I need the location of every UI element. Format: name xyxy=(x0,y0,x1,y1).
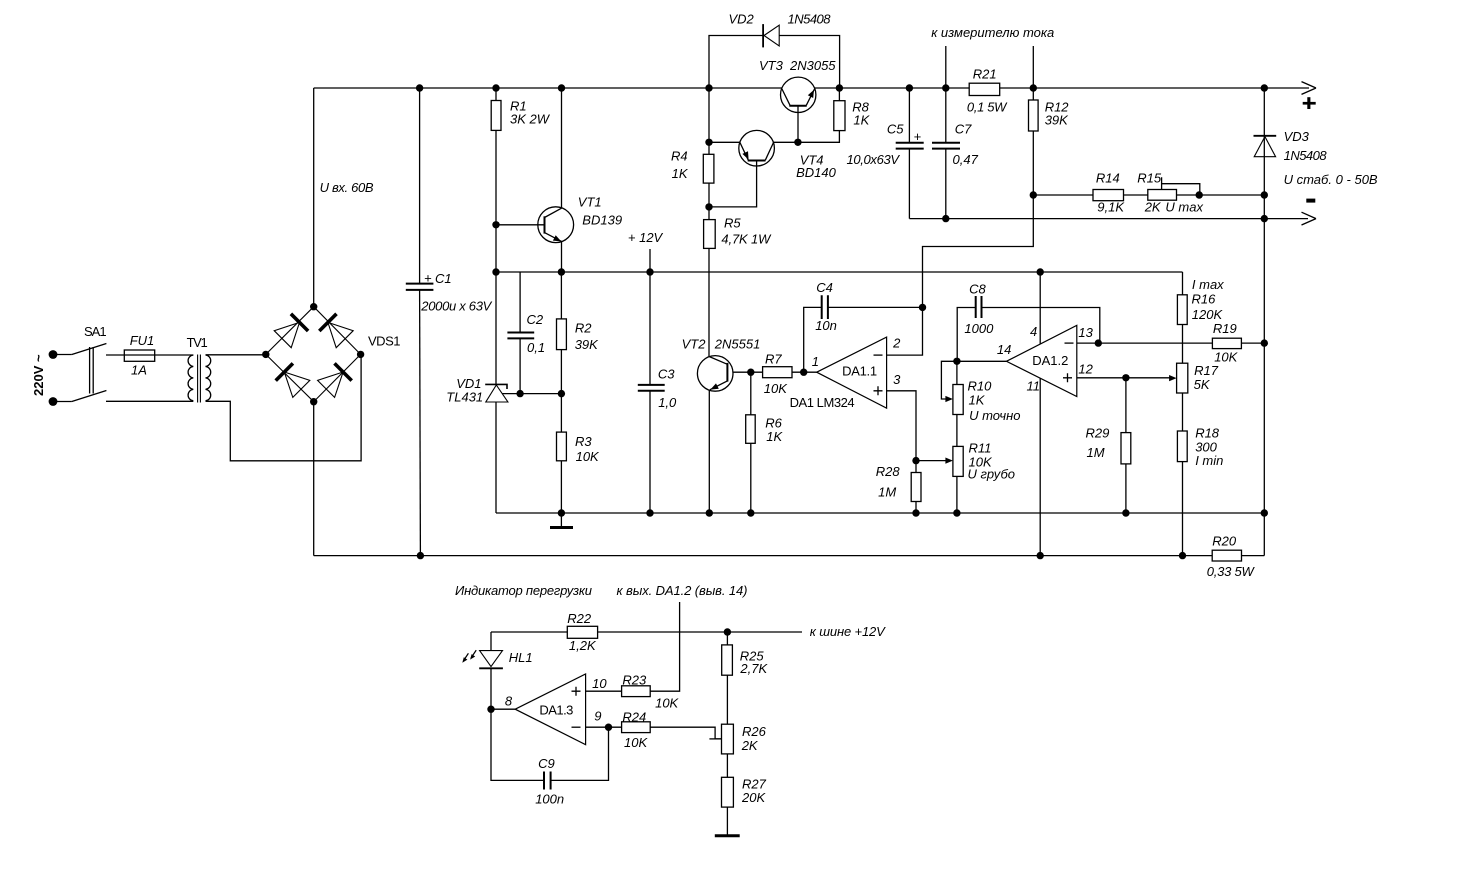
resistor R19 10K xyxy=(1212,338,1241,348)
resistor R5 4,7K 1W xyxy=(704,220,716,249)
svg-text:100n: 100n xyxy=(535,792,564,807)
junction: DA1.2 pin11 on bottom rail xyxy=(1037,552,1044,559)
junction: VT2 base / R7 / R6 xyxy=(747,369,754,376)
junction: VT1 collector on positive rail xyxy=(558,84,565,91)
wire: bottom negative rail xyxy=(314,555,1265,557)
capacitor C7 0,47 xyxy=(932,143,960,149)
svg-text:R11: R11 xyxy=(969,441,992,456)
resistor R1 3K 2W xyxy=(491,101,501,131)
svg-text:9,1K: 9,1K xyxy=(1097,200,1125,215)
svg-text:VD3: VD3 xyxy=(1284,129,1310,144)
resistor R22 1,2K xyxy=(567,626,597,638)
transistor VT1 BD139 xyxy=(538,207,574,243)
svg-text:220V ~: 220V ~ xyxy=(31,354,46,396)
wire: C8 right leg to pin13 node xyxy=(981,308,1099,344)
wire: R7 leads xyxy=(751,371,817,373)
DA1.1 plus input symbol xyxy=(874,386,883,395)
junction: C7 bottom on minus rail xyxy=(942,215,949,222)
junction: R18 bottom on bottom rail xyxy=(1179,552,1186,559)
svg-text:1N5408: 1N5408 xyxy=(788,12,832,27)
svg-text:DA1 LM324: DA1 LM324 xyxy=(790,395,855,410)
svg-text:I min: I min xyxy=(1195,453,1223,468)
wire: R2 R3 divider line xyxy=(560,272,562,513)
svg-text:0,33 5W: 0,33 5W xyxy=(1207,564,1256,579)
wire: R26 wiper tick xyxy=(709,738,721,740)
wire: DA1.2 pin4 supply line xyxy=(1039,272,1041,344)
junction: ground rail / output vertical xyxy=(1261,509,1268,516)
DA1.1 minus input symbol xyxy=(874,354,883,356)
wire: R10 R11 chain xyxy=(956,361,958,513)
svg-text:C7: C7 xyxy=(955,122,972,137)
wire: VT1 emitter to +12V rail xyxy=(561,241,563,272)
transformer TV1 xyxy=(188,355,211,403)
svg-text:к измерителю тока: к измерителю тока xyxy=(931,25,1054,40)
svg-text:1N5408: 1N5408 xyxy=(1284,148,1328,163)
wire: +12V label stub xyxy=(649,249,651,272)
node: bridge top xyxy=(310,303,317,310)
junction: VD3 top on positive rail xyxy=(1261,84,1268,91)
resistor R4 1K xyxy=(703,154,714,183)
wire: VT1 collector to top rail xyxy=(561,88,563,208)
svg-text:R4: R4 xyxy=(671,148,688,163)
svg-text:I max: I max xyxy=(1192,277,1224,292)
resistor R25 2,7K xyxy=(722,645,733,675)
wire: +12V rail xyxy=(496,271,1183,273)
svg-text:BD139: BD139 xyxy=(582,213,622,228)
junction: C5 top on positive rail xyxy=(906,84,913,91)
svg-text:BD140: BD140 xyxy=(796,165,837,180)
output arrow plus xyxy=(1302,82,1317,95)
svg-text:1K: 1K xyxy=(672,166,689,181)
junction: R2 / R3 divider xyxy=(558,390,565,397)
svg-text:R10: R10 xyxy=(968,379,993,394)
svg-text:1A: 1A xyxy=(131,363,147,378)
diode VD3 1N5408 xyxy=(1254,136,1277,157)
svg-text:1: 1 xyxy=(812,354,819,369)
wire: R29 branch xyxy=(1125,378,1127,513)
svg-text:2N3055: 2N3055 xyxy=(789,58,836,73)
junction: C7 top / ammeter stub xyxy=(942,84,949,91)
svg-text:FU1: FU1 xyxy=(130,333,155,348)
svg-text:VT2: VT2 xyxy=(682,337,707,352)
resistor R14 9,1K xyxy=(1093,190,1124,201)
junction: R3 bottom / ground stub xyxy=(558,509,565,516)
resistor R21 0,1 5W xyxy=(969,83,1000,95)
svg-text:DA1.2: DA1.2 xyxy=(1032,353,1068,368)
R11 wiper arrowhead xyxy=(945,458,953,464)
wire: SA1 to TV1 primary bottom xyxy=(106,400,193,402)
VDS1 diode D4 (bottom node to right node) xyxy=(318,363,352,397)
svg-text:C2: C2 xyxy=(527,312,544,327)
svg-text:U точно: U точно xyxy=(969,408,1020,423)
wire: VT4 collector row to R8 bottom xyxy=(774,131,840,143)
junction: R25 top / +12V bus wire xyxy=(724,628,731,635)
junction: DA1.2 pin12 / R29 xyxy=(1122,374,1129,381)
wire: ammeter stub left xyxy=(945,46,947,88)
svg-text:1,2K: 1,2K xyxy=(569,638,597,653)
transistor VT4 BD140 xyxy=(739,130,775,166)
potentiometer R15 2K U max xyxy=(1148,190,1177,201)
resistor R28 1M xyxy=(911,473,921,502)
svg-text:1M: 1M xyxy=(878,485,896,500)
svg-text:+: + xyxy=(424,271,432,286)
svg-text:R28: R28 xyxy=(876,464,901,479)
wire: VD2 loop xyxy=(709,36,840,89)
diode VD2 1N5408 xyxy=(763,24,779,47)
DA1.2 minus input symbol xyxy=(1065,342,1074,344)
svg-text:0,1: 0,1 xyxy=(527,340,545,355)
svg-text:10K: 10K xyxy=(624,735,648,750)
svg-text:10: 10 xyxy=(592,676,607,691)
node: bridge bottom xyxy=(310,398,317,405)
resistor R6 1K xyxy=(746,415,756,444)
svg-text:10n: 10n xyxy=(815,318,837,333)
wire: DA1.2 pin13 row through R19 xyxy=(1077,342,1265,344)
wire: VT2 base to R7 node xyxy=(727,371,750,373)
VDS1 diode D1 (left node to top node) xyxy=(274,314,308,348)
svg-text:DA1.3: DA1.3 xyxy=(539,703,573,718)
junction: C1 top on positive rail xyxy=(416,84,423,91)
wire: VT4 emitter wire xyxy=(709,141,740,143)
svg-text:1K: 1K xyxy=(853,113,870,128)
svg-text:U стаб. 0 - 50В: U стаб. 0 - 50В xyxy=(1284,172,1378,187)
wire: 220V top terminal lead xyxy=(53,354,72,356)
svg-text:11: 11 xyxy=(1027,379,1041,394)
svg-text:R19: R19 xyxy=(1213,321,1237,336)
resistor R27 20K xyxy=(722,777,734,807)
wire: R15 wiper to right end xyxy=(1162,177,1200,195)
svg-text:R14: R14 xyxy=(1096,171,1120,186)
junction: C2 bottom / VD1 ref xyxy=(516,390,523,397)
svg-text:2K: 2K xyxy=(741,738,759,753)
wire: ground symbol stub under R3 xyxy=(560,513,562,527)
svg-text:R21: R21 xyxy=(973,67,997,82)
capacitor C8 1000 xyxy=(976,296,982,318)
svg-text:1000: 1000 xyxy=(964,321,994,336)
wire: VT2 emitter to ground rail xyxy=(708,390,710,513)
resistor R2 39K xyxy=(557,319,567,350)
capacitor C1 2000u x 63V xyxy=(406,284,434,290)
wire: HL1 R22 top wire xyxy=(491,631,802,633)
VDS1 diode D3 (bottom node to left node) xyxy=(276,363,310,397)
junction: C8 right / DA1.2 pin13 xyxy=(1095,339,1102,346)
DA1.3 plus input symbol xyxy=(572,687,581,696)
svg-text:2000u x 63V: 2000u x 63V xyxy=(420,299,492,314)
potentiometer R17 5K xyxy=(1177,363,1188,393)
DA1.2 plus input symbol xyxy=(1063,373,1072,382)
junction: VT1 base / R1 xyxy=(492,221,499,228)
svg-text:3K 2W: 3K 2W xyxy=(510,112,551,127)
wire: DA1.2 pin14 wire xyxy=(957,360,1007,362)
junction: C3 bottom on ground rail xyxy=(646,509,653,516)
junction: R29 bottom on ground rail xyxy=(1122,509,1129,516)
wire: R6 branch xyxy=(750,372,752,513)
ground symbol (indicator divider) xyxy=(715,834,740,837)
wire: C3 branch xyxy=(649,272,651,513)
wire: R11 wiper arrow line xyxy=(916,460,947,462)
junction: DA1.3 pin9 / R24 / C9 xyxy=(605,724,612,731)
op-amp DA1.1 (DA1 LM324) xyxy=(817,337,887,408)
svg-text:1M: 1M xyxy=(1087,445,1105,460)
svg-text:2N5551: 2N5551 xyxy=(714,337,761,352)
node: bridge right xyxy=(357,351,364,358)
VDS1 diode D2 (right node to top node) xyxy=(319,314,353,348)
svg-text:1K: 1K xyxy=(766,429,783,444)
resistor R23 10K xyxy=(622,686,651,697)
svg-text:U грубо: U грубо xyxy=(968,467,1016,482)
wire: VD1 reference to divider junction xyxy=(502,393,561,395)
svg-text:DA1.1: DA1.1 xyxy=(842,364,877,379)
resistor R20 0,33 5W xyxy=(1212,550,1241,561)
svg-text:10K: 10K xyxy=(764,381,788,396)
wire: right output vertical (VD3 / R19 / R20 net) xyxy=(1263,88,1265,556)
wire: R25 R26 R27 chain xyxy=(726,632,728,836)
svg-text:14: 14 xyxy=(997,342,1011,357)
resistor R29 1M xyxy=(1121,433,1131,464)
resistor R24 10K xyxy=(622,722,651,733)
wire: R10 wiper loop xyxy=(941,361,957,399)
junction: R15 wiper xyxy=(1196,191,1203,198)
wire: C9 loop xyxy=(491,709,609,780)
wire: ammeter stub right xyxy=(1032,46,1034,88)
wire: VT1 base wire xyxy=(496,224,545,226)
wire: VT4 base to R4/R5 junction xyxy=(709,166,757,207)
junction: VT3 base / VT4 collector xyxy=(794,139,801,146)
wire: top positive rail from bridge to output xyxy=(314,87,1309,89)
svg-text:39K: 39K xyxy=(1045,113,1069,128)
capacitor C4 10n xyxy=(822,295,828,319)
junction: VD2 left leg on positive rail xyxy=(705,84,712,91)
junction: DA1.1 pin3 / R28 / R11 wiper xyxy=(912,457,919,464)
svg-text:5K: 5K xyxy=(1194,377,1211,392)
junction: +12V stub / C3 on +12V rail xyxy=(646,268,653,275)
resistor R8 1K xyxy=(834,101,845,131)
svg-text:R3: R3 xyxy=(575,434,592,449)
svg-text:4: 4 xyxy=(1030,324,1037,339)
wire: TV1 secondary top to bridge left node xyxy=(206,354,266,356)
node: bridge left xyxy=(262,351,269,358)
wire: DA1.3 pin10 row xyxy=(586,690,622,692)
svg-text:20K: 20K xyxy=(741,790,766,805)
ground symbol (control common) xyxy=(550,526,573,529)
junction: R28 bottom on ground rail xyxy=(912,509,919,516)
transistor VT3 2N3055 xyxy=(781,77,816,112)
svg-text:1,0: 1,0 xyxy=(658,395,677,410)
svg-text:R2: R2 xyxy=(575,321,592,336)
wire: output minus rail xyxy=(909,218,1308,220)
junction: DA1.2 pin14 / R10 / C8 xyxy=(953,358,960,365)
svg-text:2,7K: 2,7K xyxy=(739,661,768,676)
wire: C8 left leg xyxy=(957,308,975,362)
svg-text:R15: R15 xyxy=(1137,171,1162,186)
svg-text:VD2: VD2 xyxy=(729,12,755,27)
svg-text:C5: C5 xyxy=(887,122,904,137)
junction: DA1.1 pin1 / R7 / C4 xyxy=(800,369,807,376)
svg-text:10,0x63V: 10,0x63V xyxy=(847,152,901,167)
junction: VT2 emitter on ground rail xyxy=(706,509,713,516)
wire: R4 R5 line VD2-left to VT2 collector xyxy=(708,88,710,357)
wire: R14 R15 feedback row xyxy=(1033,194,1264,196)
wire: C2 branch xyxy=(519,272,521,394)
switch SA1 xyxy=(72,344,107,402)
wire: TV1 secondary bottom to bridge right node xyxy=(206,354,362,460)
svg-text:0,1 5W: 0,1 5W xyxy=(967,100,1008,115)
R17 wiper arrowhead xyxy=(1169,375,1177,381)
wire: R23 to DA1.2 output stub xyxy=(650,602,679,691)
svg-text:C9: C9 xyxy=(538,756,555,771)
resistor R7 10K xyxy=(763,367,792,378)
junction: R4 top / VT4 emitter xyxy=(705,139,712,146)
wire: DA1.2 pin12 row xyxy=(1077,377,1171,379)
node: 220V input terminals xyxy=(49,350,58,359)
potentiometer R11 10K U грубо xyxy=(953,446,963,476)
junction: R1 line on +12V rail xyxy=(492,268,499,275)
svg-text:C4: C4 xyxy=(816,280,833,295)
svg-text:13: 13 xyxy=(1078,325,1093,340)
svg-text:R5: R5 xyxy=(724,216,741,231)
svg-text:TV1: TV1 xyxy=(187,335,208,350)
svg-text:3: 3 xyxy=(893,372,901,387)
svg-text:R22: R22 xyxy=(567,611,592,626)
svg-text:39K: 39K xyxy=(575,337,599,352)
wire: bridge bottom node to bottom rail xyxy=(313,402,315,556)
svg-text:VDS1: VDS1 xyxy=(368,334,401,349)
junction: R6 bottom on ground rail xyxy=(747,509,754,516)
fuse FU1 1A xyxy=(124,350,154,361)
wire: feedback Z to DA1.1 pin2 xyxy=(887,195,1034,355)
wire: DA1.1 pin3 to R28 xyxy=(887,391,916,513)
wire: common ground rail xyxy=(496,512,1264,514)
capacitor C2 0,1 xyxy=(507,333,534,339)
svg-text:9: 9 xyxy=(594,709,601,724)
wire: C1 branch bottom xyxy=(419,290,422,556)
junction: VD2 right leg / R8 / VT3 emitter xyxy=(836,84,843,91)
svg-text:12: 12 xyxy=(1078,362,1093,377)
junction: minus rail on output vertical xyxy=(1261,215,1268,222)
output minus symbol xyxy=(1306,199,1315,203)
svg-text:C1: C1 xyxy=(435,271,452,286)
svg-text:Индикатор перегрузки: Индикатор перегрузки xyxy=(455,583,592,598)
wire: R16 R17 R18 chain xyxy=(1182,272,1184,556)
svg-text:10K: 10K xyxy=(576,449,600,464)
svg-text:TL431: TL431 xyxy=(446,389,483,404)
svg-text:к вых. DA1.2 (выв. 14): к вых. DA1.2 (выв. 14) xyxy=(617,583,748,598)
svg-text:1K: 1K xyxy=(969,393,986,408)
diode bridge VDS1 xyxy=(266,307,361,402)
junction: R14 row on output vertical xyxy=(1261,191,1268,198)
svg-text:R16: R16 xyxy=(1192,292,1217,307)
op-amp DA1.2 xyxy=(1006,325,1076,396)
DA1.3 minus input symbol xyxy=(572,726,581,728)
wire: DA1.3 pin8 wire xyxy=(491,708,515,710)
svg-text:HL1: HL1 xyxy=(509,650,533,665)
svg-text:R18: R18 xyxy=(1195,426,1220,441)
junction: DA1.2 pin4 line on +12V rail xyxy=(1037,268,1044,275)
output plus symbol xyxy=(1303,97,1316,109)
svg-text:R24: R24 xyxy=(622,710,646,725)
capacitor C3 1,0 xyxy=(638,385,665,391)
output arrow minus xyxy=(1302,212,1317,225)
potentiometer R26 2K xyxy=(722,724,734,754)
wire: bridge top node to rail xyxy=(313,88,315,307)
wire: C1 branch top xyxy=(419,88,421,284)
svg-text:8: 8 xyxy=(505,694,513,709)
wire: DA1.3 pin9 row through R24 xyxy=(586,727,722,739)
resistor R12 39K xyxy=(1029,100,1039,131)
svg-text:2K: 2K xyxy=(1144,200,1162,215)
wire: VT3 base down to VT4 collector row xyxy=(797,113,799,143)
wire: R1 / VD1 vertical line xyxy=(495,88,497,513)
zener VD1 TL431 xyxy=(485,384,508,402)
svg-text:C8: C8 xyxy=(969,282,986,297)
svg-text:10K: 10K xyxy=(655,696,679,711)
transistor VT2 2N5551 xyxy=(697,356,733,392)
resistor R16 120K xyxy=(1177,295,1187,325)
junction: C4 right / feedback line xyxy=(919,304,926,311)
svg-text:R29: R29 xyxy=(1086,426,1110,441)
wire: 220V bottom terminal lead xyxy=(53,401,72,403)
op-amp DA1.3 xyxy=(515,674,585,745)
svg-text:к шине +12V: к шине +12V xyxy=(810,624,886,639)
svg-text:+ 12V: + 12V xyxy=(628,230,664,245)
svg-text:0,47: 0,47 xyxy=(953,152,979,167)
wire: SA1 to FU1 to TV1 primary top xyxy=(106,354,193,356)
wire: C5 branch xyxy=(908,88,910,219)
svg-text:120K: 120K xyxy=(1192,307,1224,322)
junction: R11 bottom on ground rail xyxy=(953,509,960,516)
svg-text:2: 2 xyxy=(892,336,901,351)
svg-text:VT3: VT3 xyxy=(759,58,784,73)
resistor R18 300 I min xyxy=(1177,431,1187,462)
junction: C1 bottom on bottom rail xyxy=(417,552,424,559)
wire: C7 branch xyxy=(945,88,947,219)
capacitor C5 10,0x63V xyxy=(896,143,924,149)
R10 wiper arrowhead xyxy=(945,396,953,402)
svg-text:C3: C3 xyxy=(658,367,675,382)
junction: HL1 cathode / DA1.3 pin8 / C9 xyxy=(487,706,494,713)
junction: R1 top on positive rail xyxy=(492,84,499,91)
junction: VT1 emitter / R2 on +12V rail xyxy=(558,268,565,275)
svg-text:SA1: SA1 xyxy=(84,324,107,339)
junction: R12 bottom / R14 xyxy=(1030,191,1037,198)
capacitor C9 100n xyxy=(544,772,551,790)
junction: R19 right on output vertical xyxy=(1261,339,1268,346)
svg-text:U вх. 60В: U вх. 60В xyxy=(320,180,374,195)
wire: HL1 branch xyxy=(490,632,492,709)
wire: C4 branch from DA1.1 output xyxy=(804,307,923,372)
svg-text:R7: R7 xyxy=(765,352,782,367)
resistor R3 10K xyxy=(557,432,567,461)
svg-text:R17: R17 xyxy=(1194,363,1219,378)
svg-text:R20: R20 xyxy=(1212,534,1237,549)
wire: R8 top xyxy=(838,88,840,101)
svg-text:R23: R23 xyxy=(622,673,647,688)
svg-text:4,7K 1W: 4,7K 1W xyxy=(721,232,772,247)
svg-text:VT1: VT1 xyxy=(578,195,602,210)
svg-text:U max: U max xyxy=(1165,200,1203,215)
svg-text:R26: R26 xyxy=(742,724,767,739)
junction: R12 top / ammeter stub xyxy=(1030,84,1037,91)
svg-text:+: + xyxy=(914,129,922,144)
LED HL1 xyxy=(462,650,503,668)
potentiometer R10 1K U точно xyxy=(953,385,963,415)
junction: R4 bottom / VT4 base xyxy=(705,203,712,210)
wire: DA1.2 pin11 supply line xyxy=(1039,378,1041,555)
wire: R12 branch xyxy=(1032,88,1034,195)
